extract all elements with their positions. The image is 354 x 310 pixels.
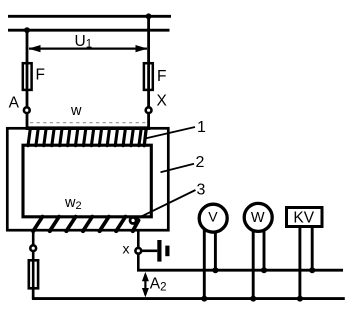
fuse F2	[144, 63, 153, 90]
voltmeter left leg	[203, 230, 206, 299]
voltmeter right leg	[214, 232, 217, 271]
svg-text:2: 2	[196, 154, 205, 171]
svg-text:w: w	[70, 103, 82, 119]
voltmeter right leg dot	[212, 267, 218, 273]
wire terminal a to fuse	[32, 251, 35, 298]
leader line to 1	[144, 127, 195, 139]
core inner window rectangle	[23, 145, 151, 217]
svg-text:A2: A2	[150, 276, 167, 294]
wire fuse to bottom bus	[32, 288, 35, 298]
faint dashed guide line	[30, 122, 147, 124]
svg-text:U1: U1	[75, 33, 93, 51]
secondary winding w2 turns	[31, 217, 138, 233]
kilovoltmeter left leg dot	[297, 296, 303, 302]
junction dot on L1	[146, 13, 152, 19]
dimension arrow U1	[28, 45, 147, 52]
primary winding w turns	[28, 129, 146, 146]
supply bus line L2	[8, 29, 170, 32]
wire terminal X to winding	[147, 114, 150, 130]
winding w top band	[27, 126, 149, 130]
terminal x	[135, 248, 141, 254]
kilovoltmeter right leg dot	[309, 267, 315, 273]
wire terminal x to ground	[142, 250, 158, 253]
wire secondary a lead	[32, 231, 35, 245]
wire secondary x lead	[137, 231, 140, 248]
kilovoltmeter left leg	[298, 228, 301, 299]
wire left phase drop	[26, 30, 29, 107]
fuse F1	[23, 63, 32, 90]
junction dot on L2	[24, 27, 30, 33]
leader line to 2	[161, 164, 195, 173]
wattmeter W	[244, 203, 272, 231]
core outer rectangle (2)	[7, 128, 168, 230]
terminal X	[146, 107, 152, 113]
wire right phase drop	[147, 16, 150, 107]
wattmeter right leg dot	[261, 267, 267, 273]
svg-text:A: A	[9, 95, 20, 112]
voltmeter left leg dot	[201, 296, 207, 302]
voltmeter V	[199, 204, 227, 232]
dimension arrow A2	[142, 272, 149, 298]
upper measuring bus wire	[137, 269, 343, 272]
ground bar short	[165, 246, 169, 257]
svg-text:KV: KV	[293, 209, 314, 226]
svg-text:F: F	[157, 68, 166, 85]
svg-text:V: V	[208, 209, 218, 225]
ground bar long	[157, 240, 161, 262]
wattmeter right leg	[263, 231, 266, 271]
wattmeter left leg	[252, 230, 255, 299]
terminal a	[30, 245, 36, 251]
winding w2 end curl	[130, 217, 136, 223]
kilovoltmeter right leg	[311, 228, 314, 270]
wattmeter left leg dot	[250, 296, 256, 302]
terminal A	[24, 107, 30, 113]
leader line to 3	[135, 190, 196, 220]
wire terminal x to upper bus	[137, 254, 140, 270]
svg-text:3: 3	[197, 181, 206, 198]
svg-text:F: F	[36, 67, 45, 84]
supply bus line L1	[8, 15, 171, 18]
kilovoltmeter KV	[287, 208, 323, 227]
bottom bus wire	[32, 297, 345, 300]
svg-text:X: X	[157, 93, 168, 110]
svg-text:x: x	[123, 241, 130, 257]
fuse F3	[29, 260, 38, 288]
svg-text:W: W	[251, 210, 265, 226]
svg-text:w2: w2	[64, 195, 82, 212]
wire terminal A to winding	[26, 114, 29, 130]
svg-text:1: 1	[197, 119, 206, 136]
